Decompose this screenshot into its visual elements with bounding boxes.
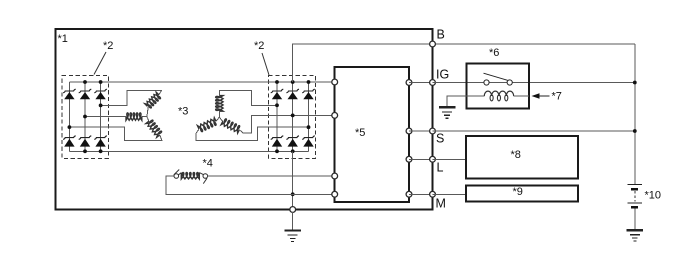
label *6: [489, 47, 499, 59]
label *8: [511, 149, 521, 161]
label *2 right: [254, 40, 264, 52]
wire IG link: [409, 82, 433, 84]
svg-text:*4: *4: [203, 158, 213, 170]
wire M to load: [433, 193, 467, 195]
wire battery bus vertical: [634, 44, 636, 184]
svg-text:M: M: [436, 197, 446, 211]
charge warning lamp *8 (box): [466, 136, 578, 179]
junction dot ground/M: [291, 192, 295, 196]
wire left phase U tap: [101, 91, 162, 106]
wire L link: [409, 158, 433, 160]
diode bottom-right 2: [286, 136, 299, 147]
wire B net (col2 up and across to battery): [293, 44, 635, 82]
terminals regulator left edge: [332, 79, 338, 197]
svg-text:*6: *6: [489, 47, 499, 59]
pointer line *2 right: [262, 53, 269, 75]
wire rotor right to regulator: [199, 173, 334, 176]
brush right (slip ring): [203, 174, 208, 184]
label *10: [645, 190, 662, 202]
stator coil right-right: [221, 118, 241, 133]
rectifier *2 left (dashed box): [62, 76, 109, 159]
svg-text:*3: *3: [178, 106, 188, 118]
diode top-right 3: [302, 89, 315, 99]
diode top-right 2: [286, 89, 299, 99]
svg-text:*8: *8: [511, 149, 521, 161]
svg-text:B: B: [437, 28, 445, 42]
junction dots left taps: [68, 104, 103, 130]
junction dots right taps: [275, 103, 310, 129]
wire left wye center: [142, 107, 149, 121]
ignition switch *6 (box): [467, 64, 529, 109]
electrical load *9 (box): [466, 185, 578, 201]
wire IG to ignition switch: [433, 82, 635, 84]
wire right phase V tap: [239, 115, 334, 133]
wire B+ top rail: [69, 81, 334, 83]
wire S link: [409, 130, 433, 132]
stator coil left-upper: [145, 92, 162, 109]
junction dots top rail: [83, 80, 310, 84]
terminal IG: [430, 68, 450, 86]
relay coil *7: [484, 91, 513, 101]
terminal B: [430, 28, 445, 47]
diode bottom-left 2: [79, 136, 92, 147]
wire battery to ground: [634, 209, 636, 230]
switch blade: [484, 73, 508, 80]
label *4: [203, 158, 213, 170]
wire left phase V tap: [85, 116, 126, 118]
svg-text:IG: IG: [436, 68, 449, 82]
terminal E (case ground): [290, 207, 296, 213]
wire diode column right 1: [276, 82, 278, 151]
diode bottom-left 1: [63, 136, 76, 147]
diode top-right 1: [271, 89, 284, 99]
wire right phase W tap: [196, 127, 309, 140]
switch contacts: [484, 80, 512, 85]
wire diode column left 2: [84, 82, 86, 151]
junction dot S-bus: [633, 129, 637, 133]
diode bottom-right 1: [271, 136, 284, 147]
wire right phase U tap: [219, 91, 277, 106]
wire diode column right 2: [292, 82, 294, 151]
wire diode column right 3: [308, 82, 310, 151]
wire left phase W tap: [69, 127, 161, 140]
pointer line *2 left: [94, 52, 106, 75]
ground (ignition switch): [439, 107, 456, 118]
wire diode column left 3: [100, 82, 102, 151]
battery *10 plates: [628, 185, 642, 208]
wire ground bottom rail: [69, 150, 308, 152]
terminals regulator right edge: [406, 80, 412, 198]
diode bottom-right 3: [302, 136, 315, 147]
stator coil left-lower: [146, 119, 163, 137]
wire right wye center: [216, 111, 223, 121]
diode bottom-left 3: [94, 136, 107, 147]
relay coil wire right: [514, 95, 529, 97]
wire M link: [409, 193, 433, 195]
ground (case): [284, 231, 301, 242]
stator coil left-horizontal: [126, 113, 142, 121]
label *2 left: [103, 40, 113, 52]
wire L to charge lamp: [433, 158, 467, 160]
diode top-left 3: [94, 89, 107, 99]
relay coil wire left to ground: [447, 96, 484, 107]
svg-text:*9: *9: [513, 186, 523, 198]
svg-text:*5: *5: [355, 127, 365, 139]
rotor field coil: [178, 172, 199, 178]
wire diode column left 1: [68, 82, 70, 151]
junction dot IG-bus: [633, 81, 637, 85]
voltage regulator *5 (box): [335, 67, 409, 202]
wire rotor left: [166, 176, 335, 194]
svg-text:*2: *2: [254, 40, 264, 52]
stator coil right-left: [197, 118, 217, 133]
wire case ground stem: [292, 212, 294, 230]
terminal M: [430, 191, 446, 210]
svg-text:S: S: [436, 132, 444, 146]
svg-text:*7: *7: [552, 91, 562, 103]
brush left (slip ring): [174, 170, 179, 179]
arrow *7: [532, 91, 562, 103]
wire S to battery bus: [433, 130, 635, 132]
wire ground drop x=292.7: [292, 151, 294, 209]
svg-text:L: L: [437, 161, 444, 175]
diode top-left 1: [63, 89, 76, 99]
terminal S: [430, 128, 445, 145]
alternator case *1 (outer box): [56, 29, 433, 210]
diode top-left 2: [79, 89, 92, 99]
svg-text:*1: *1: [58, 33, 68, 45]
label *9: [513, 186, 523, 198]
label *1: [58, 33, 68, 45]
stator coil right-top: [216, 96, 224, 112]
svg-text:*2: *2: [103, 40, 113, 52]
rectifier *2 right (dashed box): [269, 76, 316, 159]
label *5: [355, 127, 365, 139]
svg-text:*10: *10: [645, 190, 662, 202]
junction dots bottom rail: [83, 149, 295, 153]
ground (battery): [627, 230, 644, 241]
label *3: [178, 106, 188, 118]
terminal L: [430, 156, 444, 174]
